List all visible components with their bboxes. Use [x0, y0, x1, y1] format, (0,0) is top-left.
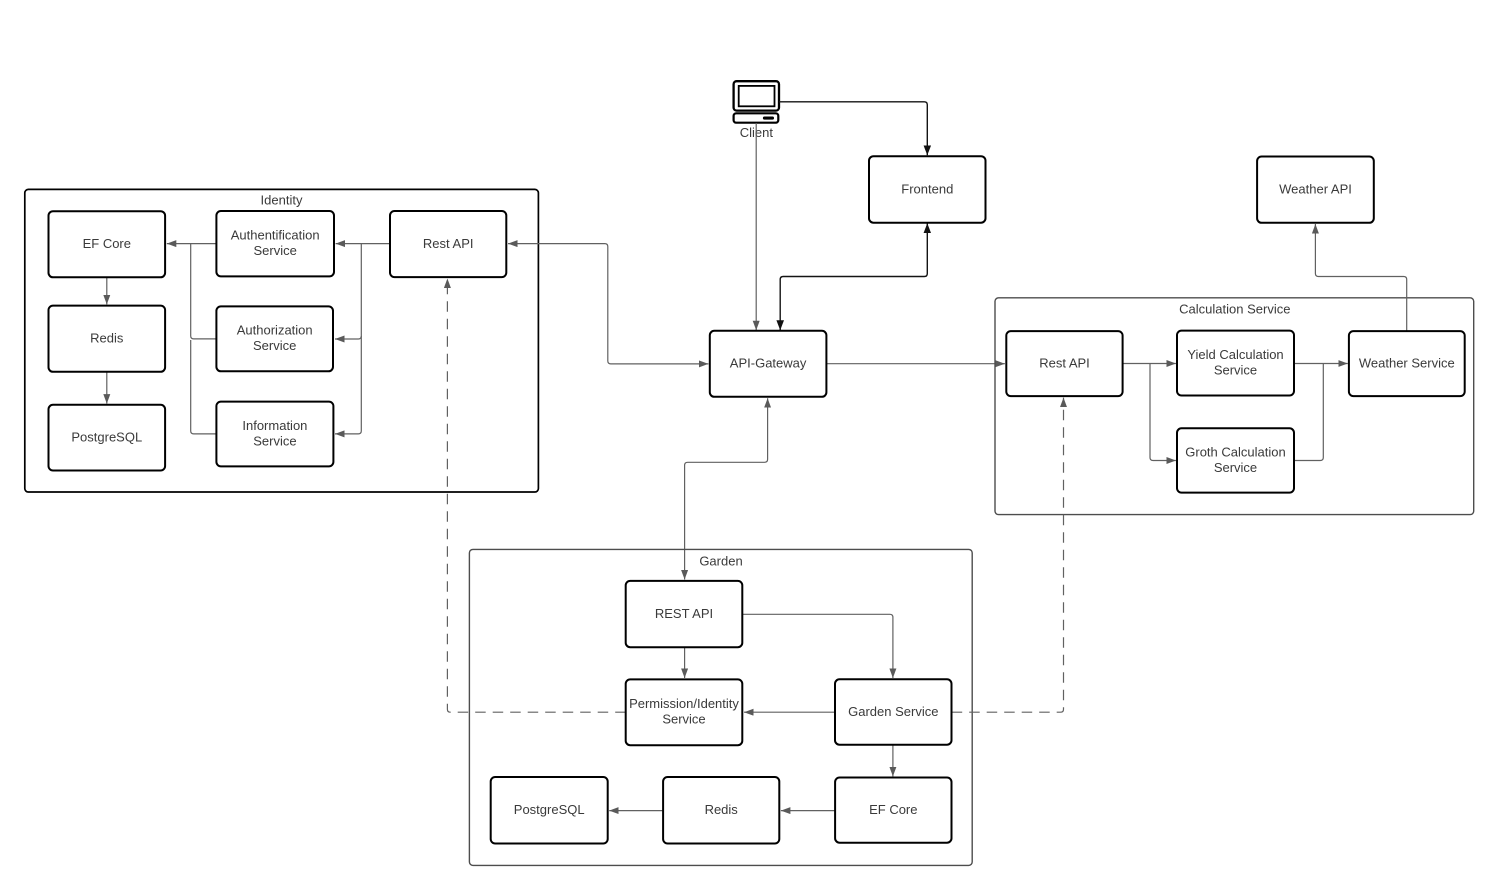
svg-text:Frontend: Frontend [901, 181, 953, 196]
wire client to api-gateway [755, 123, 757, 330]
wire authorization to ef core join [191, 244, 217, 339]
svg-text:Yield Calculation: Yield Calculation [1187, 347, 1283, 362]
node EF Core (identity) [49, 211, 166, 277]
node Rest API (identity) [390, 211, 506, 277]
svg-text:Service: Service [253, 433, 296, 448]
node Information Service [216, 402, 333, 467]
node Authorization Service [216, 306, 333, 371]
svg-text:Weather API: Weather API [1279, 182, 1352, 197]
wire dashed permission to identity rest api [447, 279, 625, 713]
node Rest API (calc) [1006, 331, 1122, 396]
node Garden Service [835, 679, 952, 744]
wire api-gateway to garden rest api (both arrows) [685, 398, 768, 579]
node PostgreSQL (identity) [49, 405, 166, 471]
wire ef core to redis [106, 278, 108, 305]
wire information to ef core join [191, 340, 217, 434]
wire rest api identity to api-gateway (both arrows) [508, 244, 708, 364]
wire client to frontend [779, 102, 927, 156]
wire groth to weather service join [1294, 364, 1323, 461]
wire calc branch to groth [1150, 364, 1176, 461]
wire garden service to permission [744, 711, 835, 713]
node PostgreSQL (garden) [491, 777, 608, 844]
wire redis to postgresql [106, 372, 108, 404]
node Groth Calculation Service [1177, 428, 1294, 492]
wire ef core to redis (garden) [781, 810, 835, 812]
node Redis (garden) [663, 777, 779, 844]
node Redis (identity) [49, 306, 166, 372]
group Identity [25, 189, 539, 492]
wire weather service to weather api [1315, 224, 1406, 331]
wire frontend to api-gateway (both arrows) [780, 223, 927, 330]
wire redis to postgresql (garden) [609, 810, 663, 812]
svg-text:EF Core: EF Core [869, 802, 917, 817]
svg-text:Redis: Redis [90, 331, 124, 346]
svg-text:REST API: REST API [655, 606, 713, 621]
wire garden service to ef core [892, 745, 894, 776]
svg-text:Information: Information [242, 418, 307, 433]
svg-text:Rest API: Rest API [423, 236, 474, 251]
svg-text:API-Gateway: API-Gateway [730, 356, 807, 371]
node Weather Service [1349, 331, 1465, 396]
svg-text:Redis: Redis [705, 802, 739, 817]
node Permission/Identity Service [626, 679, 743, 745]
wire yield to weather service [1294, 363, 1348, 365]
wire dashed garden service to calc rest api [952, 398, 1064, 713]
svg-text:Calculation Service: Calculation Service [1179, 302, 1290, 317]
svg-text:Rest API: Rest API [1039, 356, 1090, 371]
node Authentification Service [216, 211, 334, 276]
node Yield Calculation Service [1177, 331, 1294, 396]
svg-text:Service: Service [253, 338, 296, 353]
wire garden rest api to garden service [743, 614, 893, 678]
svg-text:EF Core: EF Core [83, 236, 131, 251]
wire api-gateway to calc rest api [827, 363, 1005, 365]
svg-text:Service: Service [662, 712, 705, 727]
client icon [734, 81, 779, 140]
svg-text:Identity: Identity [261, 193, 303, 208]
svg-text:Service: Service [1214, 460, 1257, 475]
svg-text:Weather Service: Weather Service [1359, 356, 1455, 371]
svg-text:PostgreSQL: PostgreSQL [71, 430, 142, 445]
wire authentification to ef core [167, 243, 217, 245]
node Frontend [869, 156, 986, 223]
node Weather API [1257, 157, 1374, 223]
svg-text:Garden: Garden [699, 554, 742, 569]
svg-text:Groth Calculation: Groth Calculation [1185, 444, 1285, 459]
wire rest api to authentification [336, 243, 390, 245]
wire branch to authorization service [335, 336, 361, 339]
svg-text:PostgreSQL: PostgreSQL [514, 802, 585, 817]
wire garden rest api to permission [684, 648, 686, 679]
group Calculation Service [995, 298, 1474, 515]
svg-text:Authorization: Authorization [237, 323, 313, 338]
svg-text:Permission/Identity: Permission/Identity [629, 696, 739, 711]
node REST API (garden) [626, 581, 743, 647]
svg-text:Service: Service [1214, 362, 1257, 377]
node API-Gateway [710, 331, 827, 397]
node EF Core (garden) [835, 778, 951, 843]
svg-text:Authentification: Authentification [231, 228, 320, 243]
svg-text:Garden Service: Garden Service [848, 704, 938, 719]
group Garden [469, 549, 972, 865]
wire calc rest api to yield [1123, 363, 1176, 365]
svg-text:Service: Service [254, 243, 297, 258]
wire branch to information service [335, 244, 361, 434]
